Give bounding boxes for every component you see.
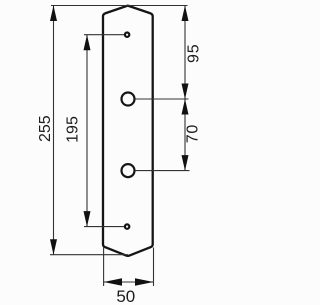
- arrow 70 top: [182, 99, 189, 115]
- screw hole top: [125, 33, 129, 37]
- svg-text:95: 95: [186, 44, 203, 63]
- dimension line 255: [53, 6, 55, 255]
- arrow 195 top: [84, 35, 91, 51]
- arrow 195 bottom: [84, 211, 91, 227]
- extension line upper big hole: [135, 98, 189, 100]
- big hole upper: [122, 93, 135, 106]
- extension line lower big hole: [135, 170, 190, 172]
- arrow 255 bottom: [50, 239, 57, 255]
- arrow 50 right: [135, 278, 154, 286]
- arrow 50 left: [104, 278, 122, 286]
- plate outline: [103, 6, 153, 256]
- big hole lower: [122, 164, 135, 177]
- arrow 70 bottom: [182, 155, 189, 171]
- extension line 50 right: [153, 248, 155, 287]
- svg-text:195: 195: [65, 116, 82, 143]
- extension line 50 left: [103, 248, 105, 287]
- arrow 255 top: [50, 6, 57, 22]
- extension line top (shared, y=5.5): [51, 5, 188, 7]
- svg-text:50: 50: [116, 287, 135, 305]
- extension line bottom screw hole: [84, 226, 124, 228]
- dimension line 50: [104, 281, 154, 283]
- svg-text:70: 70: [185, 124, 202, 143]
- extension line top screw hole: [84, 34, 124, 36]
- arrow 95 top: [182, 6, 189, 22]
- dimension line 195: [86, 35, 88, 227]
- dimension line 95/70: [184, 6, 186, 171]
- arrow 95 bottom: [182, 84, 189, 100]
- screw hole bottom: [125, 224, 129, 228]
- extension line bottom for 255: [50, 254, 128, 256]
- svg-text:255: 255: [37, 115, 54, 142]
